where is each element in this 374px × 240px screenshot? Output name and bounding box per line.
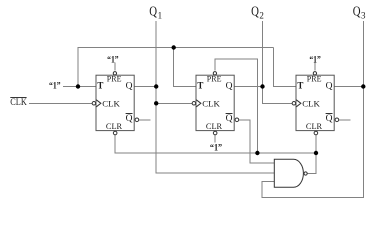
- svg-text:Q: Q: [226, 81, 233, 91]
- svg-text:T: T: [97, 80, 103, 90]
- svg-text:“1”: “1”: [309, 55, 321, 66]
- svg-text:PRE: PRE: [207, 74, 222, 84]
- svg-text:Q: Q: [226, 114, 233, 124]
- svg-text:Q: Q: [149, 3, 157, 18]
- svg-text:T: T: [197, 80, 203, 90]
- svg-text:3: 3: [361, 11, 366, 21]
- svg-text:CLR: CLR: [306, 121, 322, 131]
- svg-text:CLK: CLK: [102, 98, 120, 108]
- svg-text:CLK: CLK: [10, 97, 27, 107]
- svg-text:Q: Q: [251, 3, 259, 18]
- svg-text:“1”: “1”: [210, 143, 223, 154]
- svg-text:“1”: “1”: [49, 81, 61, 92]
- svg-text:Q: Q: [326, 81, 333, 91]
- svg-text:CLK: CLK: [302, 98, 320, 108]
- svg-text:1: 1: [158, 11, 163, 21]
- svg-text:PRE: PRE: [107, 74, 122, 84]
- svg-text:Q: Q: [126, 81, 133, 91]
- svg-text:CLR: CLR: [206, 121, 222, 131]
- svg-text:T: T: [297, 80, 303, 90]
- svg-text:PRE: PRE: [307, 74, 322, 84]
- svg-text:Q: Q: [326, 114, 333, 124]
- svg-text:Q: Q: [126, 114, 133, 124]
- svg-text:Q: Q: [353, 3, 361, 18]
- svg-text:“1”: “1”: [107, 54, 119, 65]
- svg-text:CLR: CLR: [106, 121, 122, 131]
- svg-text:2: 2: [259, 11, 264, 21]
- svg-text:CLK: CLK: [202, 98, 220, 108]
